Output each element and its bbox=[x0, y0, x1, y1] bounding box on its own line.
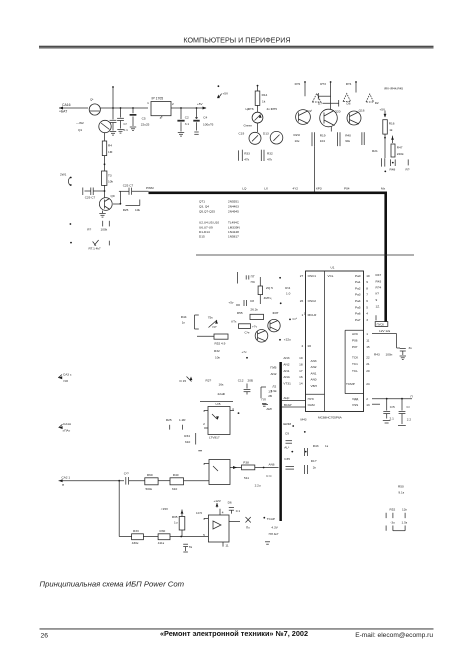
svg-text:U2,U4,U5,U10: U2,U4,U5,U10 bbox=[199, 220, 219, 224]
svg-text:5: 5 bbox=[203, 533, 205, 537]
resistor R32b 10k bbox=[214, 349, 220, 359]
svg-text:CA1A: CA1A bbox=[63, 422, 72, 426]
diode D6 bbox=[343, 94, 351, 106]
svg-text:R32: R32 bbox=[267, 151, 273, 155]
connector CA16 +BAT bbox=[59, 103, 88, 114]
svg-text:U1: U1 bbox=[331, 266, 335, 270]
svg-text:D13: D13 bbox=[263, 132, 269, 136]
svg-text:500к: 500к bbox=[146, 487, 153, 491]
svg-text:D1?: D1? bbox=[311, 459, 317, 463]
MCU part number bbox=[318, 416, 343, 420]
svg-text:R2Э: R2Э bbox=[294, 133, 301, 137]
svg-text:IP 1705: IP 1705 bbox=[152, 97, 164, 101]
svg-text:AN3: AN3 bbox=[311, 359, 317, 363]
wire collector rails bbox=[305, 82, 356, 110]
svg-text:N?: N? bbox=[213, 325, 217, 329]
svg-text:12V 12к: 12V 12к bbox=[379, 329, 391, 333]
footer rule bbox=[40, 628, 434, 629]
svg-text:16к: 16к bbox=[219, 383, 224, 387]
LED D13 bbox=[239, 131, 283, 144]
wire U13 out bbox=[223, 522, 240, 548]
svg-text:R25: R25 bbox=[166, 418, 172, 422]
svg-text:TCK: TCK bbox=[352, 356, 359, 360]
svg-text:+7v: +7v bbox=[252, 324, 258, 328]
svg-text:26: 26 bbox=[300, 299, 304, 303]
svg-text:КОМПЬЮТЕРЫ И ПЕРИФЕРИЯ: КОМПЬЮТЕРЫ И ПЕРИФЕРИЯ bbox=[183, 35, 290, 44]
svg-text:P06: P06 bbox=[352, 339, 358, 343]
regulator U IP1705 bbox=[147, 97, 174, 121]
svg-text:D7: D7 bbox=[318, 102, 322, 106]
svg-text:Q20: Q20 bbox=[335, 109, 341, 113]
svg-text:C2: C2 bbox=[185, 115, 189, 119]
svg-text:VT31: VT31 bbox=[283, 381, 291, 385]
svg-text:220k: 220k bbox=[397, 152, 404, 156]
svg-text:2W1: 2W1 bbox=[60, 173, 67, 177]
svg-text:VБН: VБН bbox=[311, 384, 317, 388]
svg-text:Q1: Q1 bbox=[78, 128, 82, 132]
svg-text:TCMP: TCMP bbox=[346, 382, 355, 386]
bus channel BCAP bbox=[282, 396, 306, 407]
svg-text:<15V: <15V bbox=[161, 507, 169, 511]
header rule bbox=[39, 46, 434, 49]
potentiometer R45 bbox=[208, 315, 218, 328]
svg-text:430к: 430к bbox=[132, 541, 139, 545]
node +5V flag bbox=[217, 85, 229, 98]
capacitor near R48 bbox=[382, 158, 410, 172]
parts list bbox=[199, 199, 240, 238]
resistor R52 bbox=[214, 334, 228, 345]
svg-text:0.1: 0.1 bbox=[124, 128, 129, 132]
svg-text:OSC1: OSC1 bbox=[308, 274, 317, 278]
capacitor C5 22u25 bbox=[130, 108, 150, 131]
resistor R27 16k bbox=[206, 379, 226, 397]
divider R52 R53 bbox=[386, 507, 408, 530]
svg-text:2N4945: 2N4945 bbox=[228, 209, 239, 213]
svg-text:75к: 75к bbox=[208, 315, 213, 319]
svg-text:АМ²: АМ² bbox=[266, 407, 272, 411]
svg-text:C9: C9 bbox=[285, 432, 289, 436]
resistor R33b 430k bbox=[132, 529, 159, 545]
svg-text:0.1: 0.1 bbox=[236, 509, 241, 513]
svg-text:1к: 1к bbox=[182, 320, 186, 324]
svg-text:2N4403: 2N4403 bbox=[228, 204, 239, 208]
wire base network bbox=[197, 331, 250, 337]
resistor R16 1k bbox=[383, 120, 395, 134]
MCU left pin numbers bbox=[299, 274, 303, 386]
transistor Q23 bbox=[255, 330, 268, 343]
svg-text:Р04: Р04 bbox=[344, 186, 350, 190]
svg-text:47k: 47k bbox=[267, 158, 272, 162]
svg-text:R16: R16 bbox=[389, 122, 395, 126]
svg-text:2: 2 bbox=[203, 422, 205, 426]
connector 2W1 bbox=[60, 173, 72, 186]
svg-text:C¹е: C¹е bbox=[245, 331, 250, 335]
transistor Q16 bbox=[347, 108, 365, 125]
svg-text:22: 22 bbox=[366, 356, 370, 360]
svg-text:R32: R32 bbox=[214, 349, 220, 353]
svg-text:R43: R43 bbox=[376, 280, 382, 284]
svg-text:10к: 10к bbox=[215, 355, 220, 359]
diode D15 bbox=[180, 377, 193, 384]
svg-text:1: 1 bbox=[203, 409, 205, 413]
optocoupler U4 bbox=[203, 460, 230, 485]
svg-text:R44: R44 bbox=[181, 315, 187, 319]
svg-text:ПУЗ: ПУЗ bbox=[308, 397, 314, 401]
wire +5V output bbox=[171, 102, 207, 110]
svg-text:10k: 10k bbox=[135, 208, 140, 212]
svg-text:511: 511 bbox=[244, 476, 249, 480]
node +5V down bbox=[380, 107, 387, 117]
svg-text:+5V: +5V bbox=[223, 91, 230, 95]
MCU right pin names bbox=[346, 274, 361, 407]
svg-text:R50: R50 bbox=[398, 484, 404, 488]
svg-text:4Y2: 4Y2 bbox=[293, 186, 299, 190]
svg-text:R¹4: R¹4 bbox=[285, 286, 290, 290]
svg-text:Pa0: Pa0 bbox=[355, 274, 361, 278]
svg-text:R35: R35 bbox=[172, 515, 178, 519]
svg-text:Pa5: Pa5 bbox=[355, 305, 361, 309]
capacitor C2 3.3 bbox=[177, 108, 189, 136]
MCU right pin numbers bbox=[366, 274, 370, 407]
svg-text:22uФ: 22uФ bbox=[218, 392, 226, 396]
svg-text:Q16: Q16 bbox=[359, 108, 365, 112]
resistor R43b 1k bbox=[305, 444, 329, 456]
svg-text:C35: C35 bbox=[284, 457, 290, 461]
svg-text:C¹: C¹ bbox=[407, 405, 410, 409]
svg-text:11: 11 bbox=[366, 339, 369, 343]
label UFT6 bbox=[246, 107, 278, 111]
svg-text:12к: 12к bbox=[402, 507, 407, 511]
capacitor C17 100n bbox=[374, 346, 412, 360]
svg-text:Тв: Тв bbox=[189, 545, 193, 549]
svg-text:Принципиальная схема ИБП Power: Принципиальная схема ИБП Power Com bbox=[40, 580, 185, 589]
wire VSS pin13 bbox=[372, 403, 380, 405]
svg-text:24: 24 bbox=[366, 382, 370, 386]
svg-text:ANA: ANA bbox=[283, 375, 290, 379]
svg-text:21: 21 bbox=[366, 362, 370, 366]
svg-text:ПЛ 4к7: ПЛ 4к7 bbox=[269, 532, 279, 536]
net labels on bus bbox=[242, 186, 385, 190]
svg-text:ПС: ПС bbox=[251, 280, 256, 284]
svg-text:610: 610 bbox=[185, 440, 190, 444]
wire CA2 branch down bbox=[119, 481, 131, 537]
LED D12 green bbox=[244, 105, 263, 132]
svg-text:+22u: +22u bbox=[284, 337, 291, 341]
svg-text:1.2R: 1.2R bbox=[179, 418, 186, 422]
comparator U13 bbox=[196, 511, 229, 542]
svg-text:U6,U7-U9: U6,U7-U9 bbox=[199, 225, 213, 229]
svg-text:R21: R21 bbox=[372, 149, 378, 153]
resistor R35 vertical bbox=[161, 507, 185, 537]
svg-text:R25: R25 bbox=[123, 208, 129, 212]
svg-text:R14: R14 bbox=[262, 93, 268, 97]
svg-text:Мх: Мх bbox=[381, 186, 386, 190]
svg-text:T3: T3 bbox=[108, 173, 112, 177]
svg-text:AVC: AVC bbox=[352, 332, 359, 336]
svg-text:1M: 1M bbox=[108, 150, 113, 154]
svg-text:9: 9 bbox=[366, 280, 368, 284]
svg-text:4: 4 bbox=[366, 312, 368, 316]
wire above opto U5 bbox=[200, 401, 233, 403]
resistor R55 bbox=[237, 311, 264, 320]
resistor R30 411k bbox=[158, 529, 209, 545]
svg-text:26.2к: 26.2к bbox=[250, 308, 258, 312]
resistor R61 610 bbox=[170, 473, 209, 491]
svg-text:26: 26 bbox=[41, 633, 49, 640]
svg-text:D 15: D 15 bbox=[180, 379, 187, 383]
svg-text:10: 10 bbox=[366, 274, 370, 278]
svg-text:Pa6: Pa6 bbox=[355, 312, 361, 316]
MCU left pin names bbox=[308, 274, 334, 407]
svg-text:22u25: 22u25 bbox=[141, 123, 150, 127]
svg-text:27: 27 bbox=[300, 274, 304, 278]
svg-text:2.2: 2.2 bbox=[407, 418, 412, 422]
capacitor C15 bbox=[383, 399, 395, 423]
svg-text:1.0: 1.0 bbox=[286, 292, 291, 296]
capacitor C35 bbox=[284, 431, 306, 469]
svg-text:NO: NO bbox=[64, 379, 69, 383]
svg-text:ВСАР: ВСАР bbox=[284, 403, 292, 407]
svg-text:6: 6 bbox=[366, 299, 368, 303]
wire ADC bus thick vertical bbox=[279, 362, 282, 521]
svg-text:IRV-/R44,R45: IRV-/R44,R45 bbox=[384, 87, 403, 91]
svg-text:+БАТ: +БАТ bbox=[59, 110, 67, 114]
svg-text:QT1: QT1 bbox=[199, 199, 205, 203]
net AN labels right of bus bbox=[283, 356, 291, 385]
svg-text:4.3V: 4.3V bbox=[271, 525, 278, 529]
resistor R19 104 bbox=[312, 132, 326, 146]
svg-text:9.1к: 9.1к bbox=[398, 491, 404, 495]
svg-text:«ПА»: «ПА» bbox=[63, 428, 71, 432]
svg-text:15: 15 bbox=[366, 345, 370, 349]
thermistor RT1 4k7 bbox=[70, 240, 109, 251]
node PWM label bbox=[146, 186, 154, 190]
svg-text:LTV817: LTV817 bbox=[209, 436, 220, 440]
svg-text:4МГц: 4МГц bbox=[264, 296, 272, 300]
svg-text:LX: LX bbox=[264, 186, 268, 190]
svg-text:—W2: —W2 bbox=[76, 121, 84, 125]
resistor column right of bus bbox=[376, 273, 382, 320]
node TCAP bbox=[263, 517, 278, 544]
svg-text:11: 11 bbox=[225, 544, 228, 548]
svg-text:М43: М43 bbox=[301, 417, 307, 421]
svg-text:R4: R4 bbox=[108, 144, 112, 148]
svg-text:C5: C5 bbox=[142, 116, 146, 120]
diode D7b bbox=[246, 517, 251, 529]
start box ПУСК bbox=[375, 322, 388, 327]
svg-text:3: 3 bbox=[203, 517, 205, 521]
node R6 100k bbox=[70, 221, 110, 232]
svg-text:К0: К0 bbox=[308, 344, 312, 348]
resistor R43 bbox=[231, 319, 258, 328]
transistor Q9 bbox=[99, 185, 115, 210]
svg-text:3: 3 bbox=[203, 462, 205, 466]
svg-text:5: 5 bbox=[366, 305, 368, 309]
relay K1 coil Q1 bbox=[76, 98, 111, 133]
svg-text:U¹5: U¹5 bbox=[216, 402, 221, 406]
svg-text:4: 4 bbox=[222, 510, 224, 514]
svg-text:ШИМ: ШИМ bbox=[283, 422, 291, 426]
footer page number bbox=[41, 633, 49, 640]
svg-text:-3u: -3u bbox=[390, 521, 395, 525]
resistor R50 9.1k bbox=[398, 484, 405, 494]
svg-text:CA2 1: CA2 1 bbox=[62, 475, 71, 479]
svg-text:1: 1 bbox=[147, 101, 149, 105]
resistor R33 47k bbox=[239, 150, 251, 162]
svg-text:LM339N: LM339N bbox=[228, 225, 240, 229]
svg-text:TC1: TC1 bbox=[352, 362, 358, 366]
svg-text:1к: 1к bbox=[325, 444, 329, 448]
svg-text:ЦФТ6: ЦФТ6 bbox=[246, 107, 254, 111]
svg-text:R?4: R?4 bbox=[376, 286, 382, 290]
node +5v left arrow bbox=[228, 300, 240, 305]
svg-text:610: 610 bbox=[172, 487, 177, 491]
svg-text:ФЗТ: ФЗТ bbox=[273, 311, 279, 315]
capacitor C4 100u25 bbox=[193, 108, 213, 134]
svg-text:Pa4: Pa4 bbox=[355, 299, 361, 303]
resistor R40 90k bbox=[338, 132, 352, 146]
svg-text:+12V: +12V bbox=[214, 499, 222, 503]
svg-text:1k: 1k bbox=[262, 99, 266, 103]
svg-text:Р38: Р38 bbox=[243, 460, 249, 464]
diode D7 bbox=[313, 93, 323, 105]
svg-text:R34: R34 bbox=[184, 434, 190, 438]
resistor R25c 10k bbox=[294, 133, 301, 143]
svg-text:C4: C4 bbox=[203, 116, 207, 120]
svg-text:П: П bbox=[411, 394, 413, 398]
svg-text:4x ФП5: 4x ФП5 bbox=[267, 107, 278, 111]
svg-text:R60: R60 bbox=[147, 473, 153, 477]
svg-text:ПУСК: ПУСК bbox=[377, 322, 385, 326]
svg-text:10к: 10к bbox=[295, 139, 300, 143]
svg-text:C12: C12 bbox=[238, 378, 244, 382]
capacitor C25 C7 bbox=[119, 183, 149, 194]
svg-text:CA16: CA16 bbox=[62, 103, 71, 107]
svg-text:AN1: AN1 bbox=[311, 371, 317, 375]
svg-text:100k: 100k bbox=[101, 227, 108, 231]
svg-text:1: 1 bbox=[301, 313, 303, 317]
svg-text:C³: C³ bbox=[124, 122, 127, 126]
svg-text:R43: R43 bbox=[374, 353, 380, 357]
svg-text:8: 8 bbox=[366, 286, 368, 290]
svg-text:2: 2 bbox=[301, 344, 303, 348]
wire VDD pin2 bbox=[372, 394, 413, 399]
resistor R34 610 bbox=[184, 433, 202, 451]
svg-text:AN6: AN6 bbox=[269, 463, 275, 467]
svg-text:LQ: LQ bbox=[242, 186, 247, 190]
svg-text:МС68НС705Р6А: МС68НС705Р6А bbox=[318, 416, 343, 420]
capacitor C14 bbox=[398, 399, 411, 426]
svg-text:2Б: 2Б bbox=[268, 394, 272, 398]
diode D17 bbox=[305, 459, 317, 474]
capacitors C29 C7 bbox=[83, 188, 105, 200]
footer email bbox=[355, 632, 433, 639]
svg-text:П: П bbox=[62, 483, 64, 487]
capacitor C12 bbox=[238, 378, 253, 394]
transistor Q17 bbox=[296, 108, 313, 125]
resistor R38 511 bbox=[230, 460, 279, 487]
svg-text:2.1: 2.1 bbox=[390, 416, 395, 420]
svg-text:Пх: Пх bbox=[246, 525, 250, 529]
svg-text:D2: D2 bbox=[375, 101, 379, 105]
svg-text:AN2: AN2 bbox=[270, 372, 276, 376]
svg-text:13: 13 bbox=[366, 403, 370, 407]
wire PWM thick bus horizontal bbox=[149, 192, 388, 195]
resistor R5 10k bbox=[102, 171, 114, 185]
footer journal title bbox=[160, 629, 308, 638]
svg-text:R33: R33 bbox=[244, 151, 250, 155]
svg-text:3.1: 3.1 bbox=[185, 122, 190, 126]
svg-text:C19: C19 bbox=[239, 131, 245, 135]
net SHIM label bbox=[266, 407, 306, 427]
svg-text:R55: R55 bbox=[237, 311, 243, 315]
svg-text:R?: R? bbox=[406, 167, 410, 171]
svg-text:TL494C: TL494C bbox=[228, 220, 240, 224]
net labels left of bus bbox=[270, 365, 277, 392]
resistor R14 1k bbox=[255, 85, 267, 106]
svg-text:10k: 10k bbox=[108, 180, 113, 184]
svg-text:3: 3 bbox=[160, 116, 162, 120]
node rails R22 R23 R24 bbox=[295, 81, 404, 91]
svg-text:C¹5: C¹5 bbox=[390, 405, 395, 409]
resistor R60 500k bbox=[145, 473, 170, 491]
node 26 bracket bbox=[261, 387, 273, 405]
svg-text:D15: D15 bbox=[199, 235, 205, 239]
svg-text:КРЗ: КРЗ bbox=[316, 186, 322, 190]
svg-text:1: 1 bbox=[366, 332, 368, 336]
svg-text:Pa7: Pa7 bbox=[355, 318, 361, 322]
svg-text:R43: R43 bbox=[313, 444, 319, 448]
svg-text:104: 104 bbox=[320, 139, 325, 143]
resistor legs under Q16 bbox=[362, 132, 364, 145]
resistor R15 bbox=[279, 277, 290, 304]
svg-text:R52 4.9: R52 4.9 bbox=[215, 341, 226, 345]
svg-text:MCLR: MCLR bbox=[308, 313, 318, 317]
connector CA2 bbox=[59, 475, 124, 487]
svg-text:2.2u: 2.2u bbox=[255, 483, 261, 487]
svg-text:20: 20 bbox=[366, 369, 370, 373]
svg-text:VДД: VДД bbox=[352, 397, 359, 401]
node C16 bbox=[289, 312, 306, 322]
svg-text:ПУВ: ПУВ bbox=[270, 365, 276, 369]
svg-text:2: 2 bbox=[366, 397, 368, 401]
svg-text:АL²: АL² bbox=[284, 446, 289, 450]
svg-text:AN2: AN2 bbox=[283, 363, 289, 367]
capacitor C2K bbox=[183, 544, 192, 552]
svg-text:18: 18 bbox=[299, 363, 303, 367]
capacitor C8 bbox=[244, 299, 258, 312]
MCU U1 box bbox=[306, 266, 364, 412]
svg-text:90к: 90к bbox=[345, 139, 350, 143]
svg-text:D6: D6 bbox=[228, 501, 232, 505]
svg-text:R19: R19 bbox=[320, 133, 326, 137]
wire to R5 bbox=[104, 156, 106, 171]
svg-text:1Z.: 1Z. bbox=[376, 305, 381, 309]
wire PWM thick bus vertical bbox=[384, 192, 387, 322]
svg-text:Pa2: Pa2 bbox=[355, 286, 361, 290]
svg-text:R48: R48 bbox=[390, 167, 396, 171]
svg-text:100u?5: 100u?5 bbox=[203, 122, 214, 126]
svg-text:OSC2: OSC2 bbox=[308, 299, 317, 303]
svg-text:Q3, Q4: Q3, Q4 bbox=[199, 204, 209, 208]
svg-text:100п: 100п bbox=[386, 353, 393, 357]
svg-text:C¹⁶: C¹⁶ bbox=[293, 317, 298, 321]
svg-text:+7v: +7v bbox=[242, 350, 248, 354]
diode D2 bbox=[366, 94, 379, 105]
svg-text:АЦС: АЦС bbox=[284, 396, 290, 400]
svg-text:1.5к: 1.5к bbox=[402, 521, 408, 525]
svg-text:ОАМ: ОАМ bbox=[308, 403, 315, 407]
